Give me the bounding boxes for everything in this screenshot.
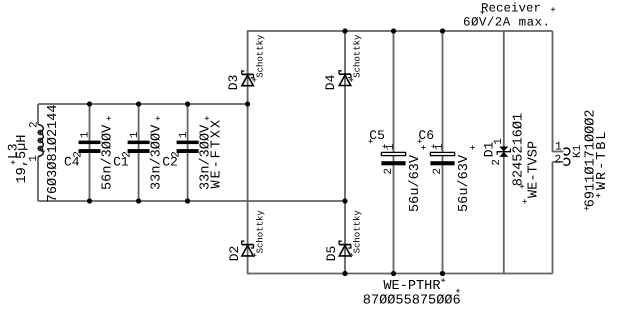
svg-text:C5: C5 bbox=[369, 128, 385, 143]
svg-text:6ØV/2A max.: 6ØV/2A max. bbox=[463, 16, 550, 30]
svg-text:C6: C6 bbox=[418, 128, 434, 143]
svg-text:1: 1 bbox=[178, 131, 190, 138]
svg-text:D2: D2 bbox=[227, 246, 242, 262]
svg-text:2: 2 bbox=[72, 151, 84, 158]
svg-text:2: 2 bbox=[554, 154, 561, 167]
svg-text:Receiver: Receiver bbox=[481, 1, 541, 15]
svg-text:8245216Ø1: 8245216Ø1 bbox=[512, 113, 527, 186]
svg-text:Schottky: Schottky bbox=[353, 210, 363, 254]
svg-text:2: 2 bbox=[383, 168, 395, 175]
svg-text:Schottky: Schottky bbox=[256, 210, 266, 254]
svg-text:2: 2 bbox=[432, 168, 444, 175]
svg-text:76Ø3Ø81Ø2144: 76Ø3Ø81Ø2144 bbox=[46, 104, 61, 202]
svg-text:56u/63V: 56u/63V bbox=[408, 154, 423, 212]
svg-text:1: 1 bbox=[493, 138, 505, 145]
svg-text:1: 1 bbox=[129, 131, 141, 138]
svg-text:Schottky: Schottky bbox=[353, 34, 363, 78]
svg-text:1: 1 bbox=[555, 141, 562, 154]
svg-text:D5: D5 bbox=[324, 246, 339, 262]
svg-text:D3: D3 bbox=[226, 75, 241, 91]
svg-text:2: 2 bbox=[170, 151, 182, 158]
svg-text:2: 2 bbox=[491, 159, 503, 166]
svg-text:2: 2 bbox=[29, 121, 41, 128]
svg-text:1: 1 bbox=[28, 155, 40, 162]
svg-text:D4: D4 bbox=[323, 74, 338, 90]
svg-text:L3: L3 bbox=[6, 143, 21, 159]
svg-text:Schottky: Schottky bbox=[256, 34, 266, 78]
svg-text:WE-PTHR: WE-PTHR bbox=[383, 279, 440, 294]
svg-text:2: 2 bbox=[121, 151, 133, 158]
svg-text:56u/63V: 56u/63V bbox=[457, 154, 472, 212]
svg-text:WR-TBL: WR-TBL bbox=[595, 130, 610, 190]
svg-text:1: 1 bbox=[80, 131, 92, 138]
svg-text:87ØØ55875ØØ6: 87ØØ55875ØØ6 bbox=[363, 293, 461, 308]
svg-text:WE-FTXX: WE-FTXX bbox=[210, 118, 225, 188]
svg-text:K1: K1 bbox=[572, 144, 584, 158]
svg-text:WE-TVSP: WE-TVSP bbox=[527, 141, 542, 198]
